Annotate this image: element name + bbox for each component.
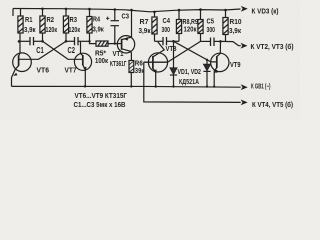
- node C4 right / wire to VT9 base: [172, 40, 217, 62]
- wire top supply rail: [13, 9, 241, 17]
- svg-text:VD1, VD2: VD1, VD2: [178, 69, 202, 76]
- svg-text:C5: C5: [207, 18, 215, 25]
- note VT6...VT9 KT315G: [75, 93, 128, 100]
- wire VT9 collector node to output: [221, 41, 241, 45]
- capacitor C4: [155, 18, 174, 45]
- wire node R1/C1: [18, 40, 30, 43]
- svg-text:300: 300: [207, 27, 216, 34]
- svg-text:3,9к: 3,9к: [24, 27, 36, 34]
- resistor R7: [139, 11, 158, 42]
- label K VD3 (k): [252, 9, 279, 16]
- svg-text:300: 300: [162, 27, 171, 34]
- resistor R4: [87, 8, 104, 42]
- transistor VT1: [110, 9, 135, 68]
- diode VD1: [170, 41, 177, 87]
- svg-text:C2: C2: [68, 46, 76, 55]
- svg-text:R8,R9: R8,R9: [183, 19, 199, 26]
- node under R2 / cross-coupling wire to VT7 base: [41, 40, 83, 59]
- svg-text:3,9к: 3,9к: [229, 28, 241, 35]
- svg-text:R6: R6: [135, 61, 143, 68]
- node R9 / wire to VT8 base: [144, 41, 201, 62]
- svg-text:VT8: VT8: [166, 46, 177, 53]
- resistor R2: [40, 8, 57, 42]
- resistor R8: [176, 9, 181, 42]
- svg-text:VT7: VT7: [65, 68, 77, 75]
- resistor R10: [223, 9, 242, 42]
- svg-text:VT9: VT9: [230, 62, 241, 69]
- svg-text:C1: C1: [36, 46, 44, 55]
- wire bottom rail: [12, 85, 241, 87]
- label VD1, VD2 KD521A: [178, 69, 202, 86]
- svg-text:3,9к: 3,9к: [93, 27, 105, 34]
- svg-text:R4: R4: [93, 17, 100, 24]
- svg-text:120к: 120к: [69, 27, 81, 34]
- svg-text:КТ361Г: КТ361Г: [110, 61, 127, 68]
- resistor R3: [63, 8, 80, 42]
- transistor VT6: [12, 41, 50, 86]
- output arrow K VT4 VT5: [241, 100, 248, 106]
- svg-text:R3: R3: [70, 17, 78, 24]
- wire C2 to VT7 collector node and R4: [78, 40, 91, 42]
- capacitor C1: [30, 37, 44, 55]
- capacitor C5: [201, 18, 221, 46]
- svg-text:3,9к: 3,9к: [139, 28, 151, 35]
- svg-text:R5*: R5*: [95, 51, 106, 58]
- svg-text:C4: C4: [163, 18, 171, 25]
- svg-text:КД521А: КД521А: [179, 79, 199, 86]
- svg-text:R1: R1: [25, 17, 33, 24]
- svg-text:К VT2, VT3 (б): К VT2, VT3 (б): [251, 43, 294, 51]
- wire VT8 base to output K VT4 VT5: [144, 62, 241, 102]
- capacitor C3 (electrolytic): [106, 8, 129, 45]
- svg-text:R10: R10: [230, 19, 242, 26]
- svg-text:VT1: VT1: [113, 51, 124, 58]
- svg-text:C3: C3: [122, 14, 130, 21]
- svg-text:R2: R2: [47, 17, 55, 24]
- label R8,R9 120k: [183, 19, 199, 34]
- transistor VT9: [211, 40, 241, 88]
- resistor R9: [198, 8, 203, 41]
- note C1...C3 5mk x 16V: [74, 102, 126, 109]
- svg-text:С1...С3 5мк х 16В: С1...С3 5мк х 16В: [74, 102, 126, 109]
- svg-text:120к: 120к: [46, 27, 58, 34]
- svg-text:К GB1 (−): К GB1 (−): [251, 83, 271, 90]
- svg-text:100к: 100к: [95, 58, 108, 65]
- label K VT4, VT5 (b): [252, 101, 293, 109]
- output arrow K GB1: [241, 84, 248, 90]
- diode VD2: [203, 59, 210, 88]
- node under R3 / cross-coupling wire to VT6 base: [19, 40, 75, 59]
- resistor R6: [129, 61, 145, 87]
- transistor VT8: [144, 42, 177, 88]
- resistor R5*: [90, 41, 122, 65]
- capacitor C2: [68, 37, 79, 55]
- svg-text:R7: R7: [140, 19, 149, 26]
- output arrow K VT2 VT3: [241, 43, 248, 49]
- svg-text:VT6: VT6: [37, 68, 50, 75]
- svg-text:К VT4, VT5 (б): К VT4, VT5 (б): [252, 101, 293, 109]
- label K VT2, VT3 (b): [251, 43, 294, 51]
- svg-text:К VD3 (к): К VD3 (к): [252, 9, 279, 16]
- transistor VT7: [65, 41, 92, 86]
- output arrow K VD3: [241, 6, 248, 12]
- svg-text:120к: 120к: [184, 26, 197, 33]
- svg-text:VT6...VT9 КТ315Г: VT6...VT9 КТ315Г: [75, 93, 128, 100]
- label K GB1 (-): [251, 83, 271, 90]
- resistor R1: [18, 9, 36, 42]
